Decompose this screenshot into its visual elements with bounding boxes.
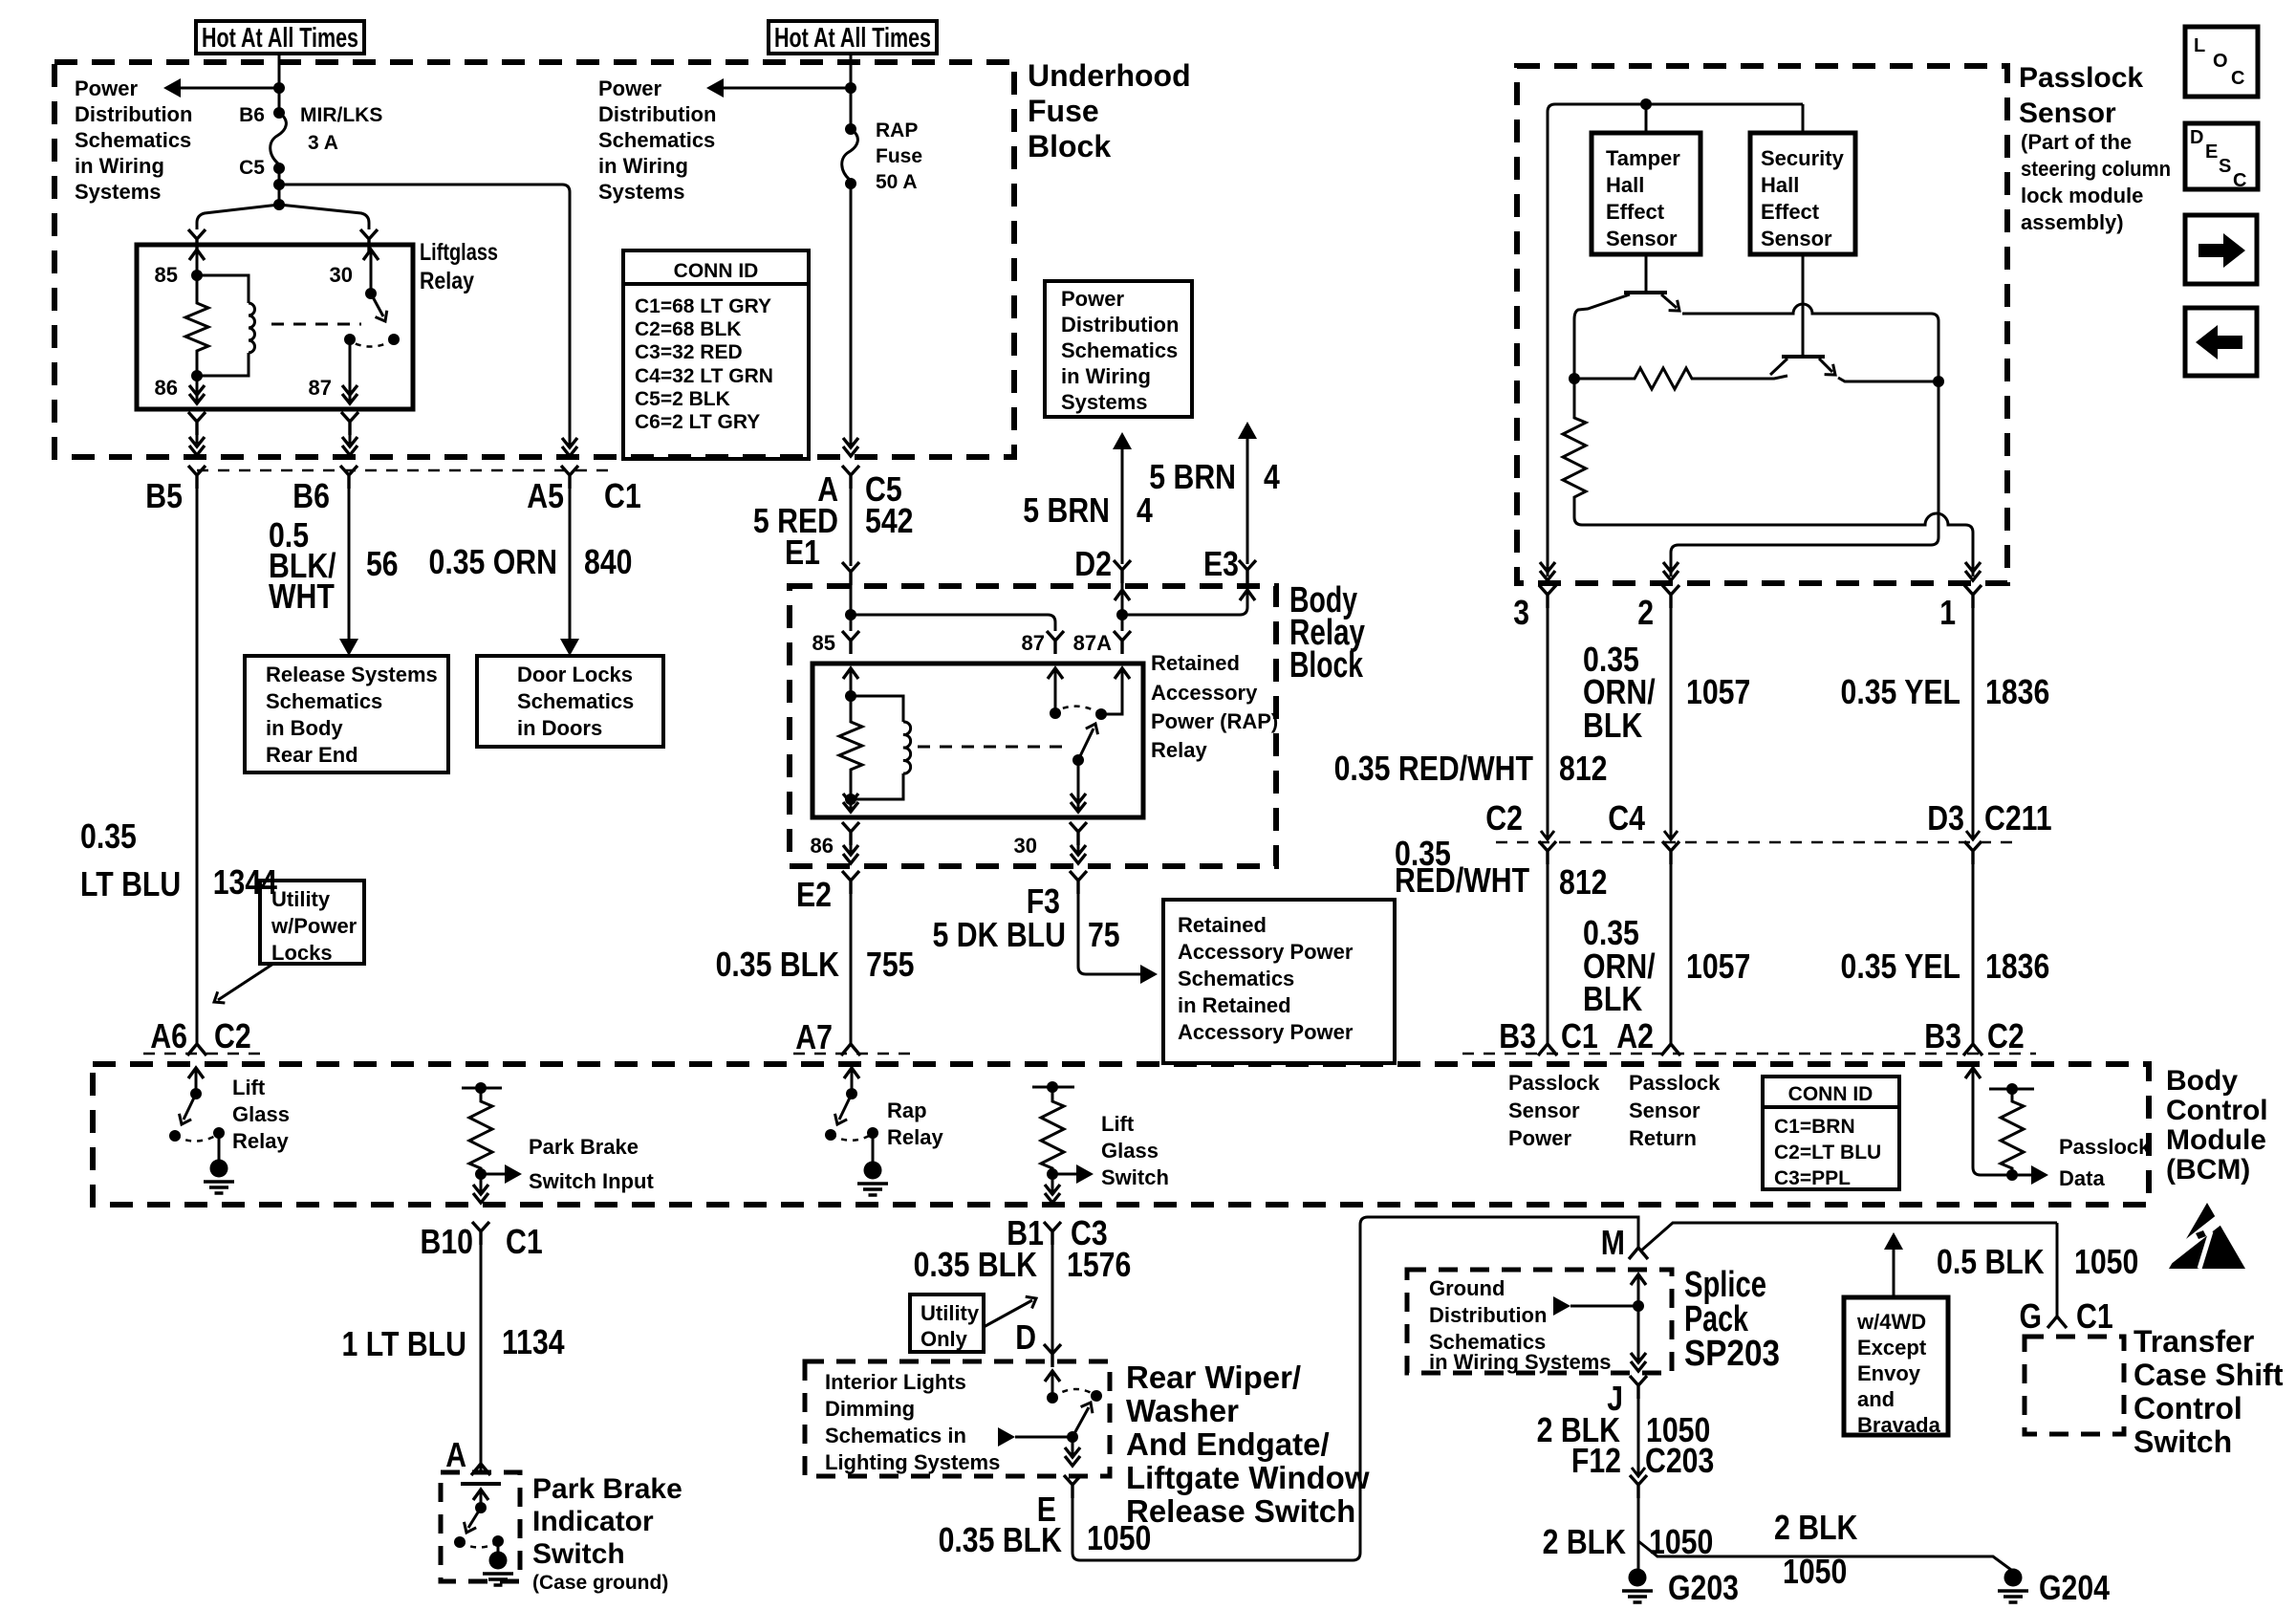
svg-text:1 LT BLU: 1 LT BLU xyxy=(342,1324,467,1363)
CONN ID table (underhood) xyxy=(623,250,809,459)
svg-text:Utility: Utility xyxy=(921,1301,980,1325)
svg-text:Power: Power xyxy=(598,76,661,100)
connector E xyxy=(1064,1475,1081,1498)
svg-text:50 A: 50 A xyxy=(876,171,918,193)
svg-text:in Doors: in Doors xyxy=(517,716,602,740)
svg-text:2: 2 xyxy=(1637,593,1654,632)
wire node down to pin 85 xyxy=(850,615,853,631)
svg-text:Except: Except xyxy=(1857,1336,1927,1360)
svg-text:in Retained: in Retained xyxy=(1178,993,1291,1017)
svg-text:Security: Security xyxy=(1761,146,1845,170)
svg-text:Effect: Effect xyxy=(1761,200,1820,224)
svg-text:O: O xyxy=(2213,51,2228,72)
svg-text:3 A: 3 A xyxy=(308,132,338,154)
svg-text:BLK: BLK xyxy=(1583,979,1642,1018)
passlock data input (BCM) xyxy=(1965,1068,1981,1078)
svg-text:B3: B3 xyxy=(1924,1016,1961,1055)
relay contact dashed link xyxy=(271,323,361,326)
pin 86 connector below relay xyxy=(188,412,206,435)
svg-text:A7: A7 xyxy=(795,1017,833,1056)
ground (rap relay) xyxy=(872,1133,875,1163)
wire 755 xyxy=(850,894,853,1045)
Retained Accessory Power reference box xyxy=(1163,900,1395,1063)
node emitters join xyxy=(1933,376,1944,387)
svg-text:Schematics: Schematics xyxy=(517,689,634,713)
Security Hall Effect Sensor box xyxy=(1750,133,1855,254)
transistor Q1 (tamper) xyxy=(1645,254,1648,291)
svg-text:Lift: Lift xyxy=(232,1076,266,1099)
connector into relay pin 30 xyxy=(360,229,378,252)
svg-text:Release Switch: Release Switch xyxy=(1126,1493,1355,1529)
svg-text:Systems: Systems xyxy=(598,180,685,204)
Utility Only box xyxy=(910,1295,984,1352)
park brake switch arm xyxy=(473,1490,488,1500)
svg-text:A6: A6 xyxy=(150,1016,187,1055)
svg-text:Door Locks: Door Locks xyxy=(517,663,633,686)
wire D2 into block xyxy=(1121,583,1124,615)
svg-text:C2=LT BLU: C2=LT BLU xyxy=(1774,1142,1881,1164)
svg-text:Schematics: Schematics xyxy=(598,128,715,152)
svg-text:in Wiring: in Wiring xyxy=(1061,364,1151,388)
left arrow nav box xyxy=(2185,308,2257,376)
svg-text:C211: C211 xyxy=(1984,798,2052,838)
node at right power feed xyxy=(845,82,856,94)
svg-text:1057: 1057 xyxy=(1686,672,1750,711)
RAP switch travel arc xyxy=(1055,707,1101,714)
svg-text:Indicator: Indicator xyxy=(532,1506,654,1537)
pin 86 connector below RAP relay xyxy=(842,822,859,845)
svg-text:in Wiring Systems: in Wiring Systems xyxy=(1429,1350,1612,1374)
svg-text:Lighting Systems: Lighting Systems xyxy=(825,1450,1000,1474)
svg-text:0.35 BLK: 0.35 BLK xyxy=(716,945,839,984)
wire down to transfer case xyxy=(2056,1223,2059,1317)
svg-text:Body: Body xyxy=(2166,1065,2238,1097)
svg-text:86: 86 xyxy=(155,376,178,400)
svg-text:Glass: Glass xyxy=(1101,1139,1159,1163)
Passlock Sensor dashed box xyxy=(1517,66,2007,583)
svg-text:812: 812 xyxy=(1559,749,1608,788)
svg-text:Passlock: Passlock xyxy=(2059,1135,2151,1159)
svg-text:Block: Block xyxy=(1289,645,1364,685)
svg-text:1576: 1576 xyxy=(1067,1245,1131,1284)
svg-text:E: E xyxy=(2205,141,2218,163)
Door Locks reference box xyxy=(477,656,663,747)
svg-text:B5: B5 xyxy=(145,476,183,515)
DESC box xyxy=(2185,123,2258,189)
connector B5 xyxy=(188,466,206,489)
transistor Q2 (security) xyxy=(1802,254,1805,355)
svg-text:C3=PPL: C3=PPL xyxy=(1774,1167,1851,1189)
wire emitters down to return (pin 2) xyxy=(1671,381,1939,577)
svg-text:87A: 87A xyxy=(1073,631,1112,655)
svg-text:Lift: Lift xyxy=(1101,1112,1135,1136)
svg-text:LT BLU: LT BLU xyxy=(80,864,181,903)
wire 1050 ground route xyxy=(1072,1217,1638,1560)
svg-text:1057: 1057 xyxy=(1686,946,1750,986)
RAP relay box xyxy=(812,664,1143,817)
rap relay contact (BCM) xyxy=(844,1068,859,1078)
svg-text:1050: 1050 xyxy=(1087,1518,1151,1557)
svg-text:Rear End: Rear End xyxy=(266,743,358,767)
Hot At All Times box (right) xyxy=(769,21,937,54)
wire branch to relay pin 30 xyxy=(279,205,369,229)
ground G203 xyxy=(1622,1569,1653,1603)
wire 840 (A5) xyxy=(569,489,572,639)
arrow Utility to wire xyxy=(218,964,273,1000)
connector A C5 xyxy=(842,466,859,489)
svg-text:1: 1 xyxy=(1939,593,1956,632)
wire Q2 emitter to node xyxy=(1838,378,1939,381)
svg-text:5 BRN: 5 BRN xyxy=(1023,490,1110,530)
svg-text:Switch: Switch xyxy=(532,1538,625,1570)
svg-text:1836: 1836 xyxy=(1985,946,2049,986)
svg-text:Control: Control xyxy=(2166,1095,2268,1126)
svg-text:C2: C2 xyxy=(1485,798,1523,838)
svg-text:Distribution: Distribution xyxy=(1061,313,1179,337)
pin 87A terminal inside RAP relay xyxy=(1115,668,1130,679)
svg-text:(Part of the: (Part of the xyxy=(2021,130,2132,154)
svg-text:Power: Power xyxy=(1061,287,1124,311)
pin 87 connector below relay xyxy=(341,412,358,435)
svg-text:C1=BRN: C1=BRN xyxy=(1774,1116,1855,1138)
svg-text:C4=32 LT GRN: C4=32 LT GRN xyxy=(635,365,773,387)
rear wiper switch arm xyxy=(1067,1431,1078,1443)
svg-text:D3: D3 xyxy=(1927,798,1964,838)
svg-text:RED/WHT: RED/WHT xyxy=(1395,860,1529,900)
wire 75 to RAP schematics xyxy=(1078,894,1144,974)
svg-text:C5=2 BLK: C5=2 BLK xyxy=(635,388,730,410)
svg-text:Washer: Washer xyxy=(1126,1393,1239,1428)
wire 812 segment 2 xyxy=(1547,864,1549,1045)
svg-text:Switch: Switch xyxy=(1101,1165,1169,1189)
svg-text:5 BRN: 5 BRN xyxy=(1149,457,1236,496)
svg-text:D: D xyxy=(1015,1317,1036,1357)
D2 terminator arrow up xyxy=(1113,432,1132,449)
rear wiper switch contact xyxy=(1045,1371,1060,1382)
svg-text:Schematics in: Schematics in xyxy=(825,1424,966,1447)
svg-text:Distribution: Distribution xyxy=(1429,1303,1547,1327)
pin 30 exit arrow inside RAP relay xyxy=(1077,760,1080,812)
svg-text:C1: C1 xyxy=(604,476,641,515)
right arrow nav box xyxy=(2185,215,2257,284)
pin 1 exit arrow xyxy=(1965,562,1981,580)
Hot At All Times box (left) xyxy=(196,21,364,54)
svg-text:Data: Data xyxy=(2059,1166,2105,1190)
connector B1 C3 xyxy=(1044,1222,1061,1245)
wire from right Hot box down xyxy=(850,54,853,129)
svg-text:Fuse: Fuse xyxy=(876,145,922,167)
E3 terminator arrow up xyxy=(1238,422,1257,439)
svg-text:Rap: Rap xyxy=(887,1099,927,1122)
wire to ground G203 xyxy=(1637,1498,1640,1569)
pin 30 terminal inside relay xyxy=(363,250,379,260)
svg-text:3: 3 xyxy=(1513,593,1529,632)
Liftglass Relay box xyxy=(137,245,413,409)
svg-text:S: S xyxy=(2219,156,2231,177)
connector C4 xyxy=(1664,831,1678,839)
wire 542 to body relay block xyxy=(850,489,853,566)
svg-text:C: C xyxy=(2233,170,2246,191)
svg-text:A2: A2 xyxy=(1616,1016,1654,1055)
CONN ID table (BCM) xyxy=(1763,1077,1899,1189)
svg-text:C1: C1 xyxy=(506,1222,543,1261)
connector B10 C1 xyxy=(472,1222,489,1245)
pin 85 terminal inside RAP relay xyxy=(843,668,858,679)
connector A into switch xyxy=(471,1464,490,1475)
pin 85 connector xyxy=(842,631,859,654)
svg-text:C4: C4 xyxy=(1608,798,1645,838)
ground G204 xyxy=(1998,1569,2028,1603)
wire arrow to Power Distribution (left) xyxy=(172,87,279,90)
svg-text:steering column: steering column xyxy=(2021,157,2171,181)
svg-text:C1: C1 xyxy=(1561,1016,1598,1055)
svg-text:1050: 1050 xyxy=(1783,1552,1847,1591)
svg-text:C1=68 LT GRY: C1=68 LT GRY xyxy=(635,295,771,317)
svg-text:Park Brake: Park Brake xyxy=(529,1135,639,1159)
svg-text:Accessory Power: Accessory Power xyxy=(1178,1020,1354,1044)
svg-text:Distribution: Distribution xyxy=(598,102,716,126)
node C5 branch to door-locks feed xyxy=(273,179,285,190)
connector A5 C1 xyxy=(561,466,578,489)
passlock feed wire (pin 3) xyxy=(1548,104,1803,577)
svg-text:Accessory: Accessory xyxy=(1151,681,1258,705)
svg-text:Retained: Retained xyxy=(1151,651,1240,675)
svg-text:Tamper: Tamper xyxy=(1606,146,1680,170)
svg-text:Effect: Effect xyxy=(1606,200,1665,224)
svg-text:0.5 BLK: 0.5 BLK xyxy=(1937,1242,2045,1281)
svg-text:C203: C203 xyxy=(1645,1441,1714,1480)
connector into relay pin 85 xyxy=(188,229,206,252)
svg-text:Transfer: Transfer xyxy=(2134,1324,2254,1359)
connector row B5 B6 A5 C1 xyxy=(197,469,612,472)
fuse MIR/LKS 3A xyxy=(273,107,285,119)
svg-text:C: C xyxy=(2231,68,2244,89)
wire C5 to A5 door locks feed xyxy=(279,185,570,446)
svg-text:B10: B10 xyxy=(421,1222,474,1261)
resistor lower-left (passlock) xyxy=(1563,379,1919,525)
resistor R (liftglass relay) xyxy=(185,275,208,376)
pin 87 connector xyxy=(1047,631,1064,654)
svg-text:and: and xyxy=(1857,1387,1895,1411)
svg-text:30: 30 xyxy=(1014,834,1037,858)
wire RAP fuse down to A/C5 xyxy=(850,184,853,446)
svg-text:1050: 1050 xyxy=(2074,1242,2138,1281)
svg-text:Retained: Retained xyxy=(1178,913,1267,937)
svg-text:Switch: Switch xyxy=(2134,1425,2232,1459)
Transfer Case Shift Control Switch dashed box xyxy=(2025,1337,2124,1434)
svg-text:Sensor: Sensor xyxy=(2019,98,2116,129)
connector G C1 xyxy=(2047,1316,2067,1328)
pin 30 connector below RAP relay xyxy=(1070,822,1087,845)
svg-text:A: A xyxy=(445,1435,466,1474)
pin 86 exit arrow inside relay xyxy=(196,376,199,403)
pin 87 terminal inside RAP relay xyxy=(1048,668,1063,679)
svg-text:0.35 BLK: 0.35 BLK xyxy=(939,1520,1062,1559)
annotation arrow into switch xyxy=(998,1427,1015,1447)
svg-text:D2: D2 xyxy=(1074,544,1112,583)
arrow Utility Only to wire xyxy=(984,1300,1032,1327)
svg-text:WHT: WHT xyxy=(269,577,335,616)
svg-text:542: 542 xyxy=(865,501,914,540)
svg-text:Schematics: Schematics xyxy=(1178,967,1294,990)
lift glass switch resistor (BCM) xyxy=(1032,1086,1074,1089)
svg-text:Only: Only xyxy=(921,1327,968,1351)
wire 1836 segment 1 xyxy=(1972,608,1975,838)
svg-text:840: 840 xyxy=(584,542,633,581)
svg-text:Power: Power xyxy=(75,76,138,100)
svg-text:Control: Control xyxy=(2134,1391,2242,1425)
svg-text:And Endgate/: And Endgate/ xyxy=(1126,1426,1330,1462)
wire to security sensor xyxy=(1802,104,1805,133)
wire to tamper sensor xyxy=(1645,104,1648,133)
wire arrow to Power Distribution (mid) xyxy=(715,87,851,90)
svg-text:B6: B6 xyxy=(292,476,330,515)
BCM connector row xyxy=(1462,1053,2036,1055)
svg-text:Bravada: Bravada xyxy=(1857,1413,1941,1437)
svg-text:0.35 BLK: 0.35 BLK xyxy=(914,1245,1037,1284)
svg-text:755: 755 xyxy=(866,945,915,984)
Utility w/Power Locks box xyxy=(260,881,364,964)
splice input terminal xyxy=(1631,1274,1646,1285)
pin 85 terminal inside relay xyxy=(189,250,205,260)
connector C2 xyxy=(1541,831,1554,839)
svg-text:(Case ground): (Case ground) xyxy=(532,1572,668,1594)
svg-text:2 BLK: 2 BLK xyxy=(1543,1522,1626,1561)
svg-text:Sensor: Sensor xyxy=(1761,227,1832,250)
RAP coil wire xyxy=(851,696,903,722)
svg-text:Envoy: Envoy xyxy=(1857,1361,1921,1385)
Interior Lights dashed box xyxy=(805,1361,1110,1476)
RAP coil xyxy=(903,722,911,773)
svg-text:C1: C1 xyxy=(2076,1296,2113,1336)
svg-text:(BCM): (BCM) xyxy=(2166,1154,2250,1186)
svg-text:87: 87 xyxy=(309,376,332,400)
arrow park brake switch input xyxy=(481,1173,505,1176)
svg-text:Schematics: Schematics xyxy=(1061,338,1178,362)
svg-text:Locks: Locks xyxy=(271,941,333,965)
svg-text:Schematics: Schematics xyxy=(266,689,382,713)
node at left power feed xyxy=(273,82,285,94)
svg-text:4: 4 xyxy=(1137,490,1153,530)
svg-text:Release Systems: Release Systems xyxy=(266,663,438,686)
svg-text:Accessory Power: Accessory Power xyxy=(1178,940,1354,964)
svg-text:w/4WD: w/4WD xyxy=(1856,1310,1926,1334)
splice exit arrow xyxy=(1631,1353,1646,1371)
svg-text:Rear Wiper/: Rear Wiper/ xyxy=(1126,1360,1301,1395)
svg-text:Hall: Hall xyxy=(1606,173,1644,197)
relay coil wire xyxy=(197,275,249,303)
RAP switch arm xyxy=(1072,754,1084,766)
arrow from w/4WD box up xyxy=(1893,1250,1895,1297)
wire 1576 xyxy=(1051,1245,1054,1358)
svg-text:Relay: Relay xyxy=(232,1129,289,1153)
wire 1836 segment 2 xyxy=(1972,864,1975,1045)
ground (lift glass relay) xyxy=(218,1133,221,1161)
svg-text:E1: E1 xyxy=(785,533,820,572)
svg-text:CONN ID: CONN ID xyxy=(1788,1083,1874,1105)
wire hop over emitter drop then to pin 1 xyxy=(1919,513,1973,577)
svg-text:Ground: Ground xyxy=(1429,1276,1505,1300)
relay switch travel arc xyxy=(350,339,394,347)
svg-text:G: G xyxy=(2020,1296,2043,1336)
svg-text:Park Brake: Park Brake xyxy=(532,1473,682,1505)
svg-text:Passlock: Passlock xyxy=(1508,1071,1600,1095)
inline connector row C2 C4 D3 C211 xyxy=(1496,841,2022,844)
svg-text:0.35 YEL: 0.35 YEL xyxy=(1841,946,1961,986)
node left rail xyxy=(1569,373,1580,384)
pin 86 exit arrow inside RAP relay xyxy=(850,799,853,812)
svg-text:Hot At All Times: Hot At All Times xyxy=(774,23,931,54)
rear wiper switch exit xyxy=(1072,1437,1074,1455)
svg-text:C5: C5 xyxy=(239,157,265,179)
svg-text:in Body: in Body xyxy=(266,716,343,740)
connector pin 2 xyxy=(1662,585,1679,608)
svg-text:L: L xyxy=(2194,35,2205,56)
connector E2 xyxy=(842,871,859,894)
svg-text:Power (RAP): Power (RAP) xyxy=(1151,709,1278,733)
wire 1134 xyxy=(480,1245,483,1472)
wire 1050 to G204 xyxy=(1638,1541,2011,1570)
svg-text:Hot At All Times: Hot At All Times xyxy=(202,23,358,54)
Underhood Fuse Block dashed box xyxy=(54,62,1014,457)
resistor R (RAP relay) xyxy=(839,696,862,799)
connector F12 C203 xyxy=(1632,1468,1645,1476)
svg-text:G204: G204 xyxy=(2039,1568,2110,1607)
svg-text:Relay: Relay xyxy=(420,268,474,294)
svg-text:812: 812 xyxy=(1559,862,1608,902)
svg-text:Sensor: Sensor xyxy=(1508,1099,1580,1122)
node liftglass feed xyxy=(273,199,285,210)
svg-text:F12: F12 xyxy=(1571,1441,1621,1480)
svg-text:M: M xyxy=(1601,1223,1625,1262)
wire 812 segment 1 xyxy=(1547,608,1549,838)
Power Distribution Schematics reference box (right) xyxy=(1045,281,1192,417)
Body Relay Block dashed box xyxy=(790,586,1276,866)
rear wiper switch travel arc xyxy=(1052,1389,1096,1398)
wire 1057 segment 1 xyxy=(1670,608,1673,838)
svg-text:30: 30 xyxy=(330,263,353,287)
svg-text:0.35 ORN: 0.35 ORN xyxy=(429,542,558,581)
fuse RAP 50A xyxy=(845,123,856,135)
Release Systems reference box xyxy=(245,656,448,772)
svg-text:5 DK BLU: 5 DK BLU xyxy=(933,915,1067,954)
wire 1057 segment 2 xyxy=(1670,864,1673,1045)
wire 1344 (B5) xyxy=(196,489,199,1045)
wire branch to relay pin 85 xyxy=(197,205,279,229)
svg-text:1836: 1836 xyxy=(1985,672,2049,711)
Body Control Module dashed box xyxy=(93,1064,2149,1205)
svg-text:C6=2 LT GRY: C6=2 LT GRY xyxy=(635,411,760,433)
svg-text:Module: Module xyxy=(2166,1124,2266,1156)
RAP contact dashed link xyxy=(918,746,1063,749)
wire node down to pin 87A xyxy=(1121,615,1124,631)
resistor between rail and Q2 xyxy=(1574,368,1787,389)
lift glass relay contact (BCM) xyxy=(188,1068,204,1078)
svg-text:Glass: Glass xyxy=(232,1102,290,1126)
svg-text:Sensor: Sensor xyxy=(1629,1099,1700,1122)
svg-text:56: 56 xyxy=(366,544,399,583)
svg-text:MIR/LKS: MIR/LKS xyxy=(300,104,382,126)
svg-text:B6: B6 xyxy=(239,104,265,126)
svg-text:B3: B3 xyxy=(1499,1016,1536,1055)
pin 3 exit arrow xyxy=(1540,562,1555,580)
w/4WD Except Envoy and Bravada box xyxy=(1844,1297,1948,1435)
svg-text:Underhood: Underhood xyxy=(1028,58,1191,93)
svg-text:C3=32 RED: C3=32 RED xyxy=(635,341,743,363)
svg-text:87: 87 xyxy=(1022,631,1045,655)
ESD symbol xyxy=(2169,1203,2245,1269)
svg-text:86: 86 xyxy=(811,834,834,858)
